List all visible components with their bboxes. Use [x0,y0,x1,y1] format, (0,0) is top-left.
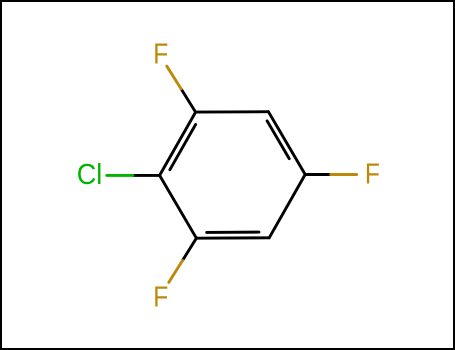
bond C3-C4 (UR-R) [268,112,305,175]
bond C6-C1 (LL-L) [160,175,197,238]
bond C2-C3 (UL-UR top edge) [196,110,269,113]
double bond inner line C1=C2 [170,125,196,170]
svg-text:F: F [153,38,168,70]
bond C6-F black half [183,238,197,260]
bond C2-F black half [181,89,196,112]
bond C5-C6 (LR-LL bottom edge) [196,236,269,239]
bond C1-Cl green half [107,174,133,177]
bond C6-F olive half [169,261,183,283]
bond C4-C5 (R-LR) [269,175,305,238]
bond C4-F olive half [331,173,357,176]
bond C2-F olive half [167,66,181,89]
benzene ring C1..C6 : L(159.6,175.4) UL(195.6,112.1) UR(268.4,111.7) R(305.2,174.5) LR(269.2,237.8) LL(196.4,238.2) [160,112,306,239]
bond C4-F black half [305,173,331,176]
bond C1-C2 (L-UL) [160,112,196,175]
bond C1-Cl black half [133,174,160,177]
double bond inner line C5=C6 [207,231,259,234]
svg-text:F: F [365,159,380,191]
double bond inner line C3=C4 [267,121,289,159]
svg-text:F: F [153,282,168,314]
svg-text:Cl: Cl [77,159,103,191]
